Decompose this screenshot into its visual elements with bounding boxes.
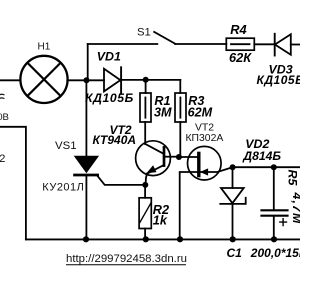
node rail C1 [271,236,277,242]
node emitter junction [142,182,148,188]
wire C1 riser [273,167,275,209]
resistor R2 [139,198,151,229]
capacitor C1 [262,209,288,211]
resistor R4 [226,38,254,50]
svg-text:62М: 62М [188,105,213,119]
node R1 junction [143,77,149,83]
svg-text:R4: R4 [230,22,246,37]
svg-text:VS1: VS1 [55,140,77,152]
node gate junction [176,154,182,160]
svg-text:0В: 0В [0,112,9,123]
wire VS1 anode riser [85,80,87,156]
wire riser to R3 [179,80,181,93]
wire VS1 gate to emitter node [98,176,145,185]
transistor VT2 (KP302A FET) [188,146,222,180]
node drain junction [230,164,236,170]
svg-text:КУ201Л: КУ201Л [42,182,84,194]
wire VD3 to right edge [291,44,300,46]
svg-text:200,0*15В: 200,0*15В [250,246,300,260]
resistor R3 [175,93,186,122]
svg-text:КТ940А: КТ940А [93,133,137,147]
svg-text:С1: С1 [227,246,243,260]
wire VD2 riser [232,167,234,188]
wire gate node to FET gate [182,156,198,158]
svg-text:КД105Б: КД105Б [257,73,301,87]
wire VT1 emitter down [146,173,148,185]
svg-text:Д814Б: Д814Б [242,149,281,163]
svg-text:R5: R5 [286,170,300,187]
node lamp-VS1 junction [84,77,90,83]
wire R2 to rail [144,229,146,240]
svg-text:1k: 1k [153,214,168,228]
lamp H1 [20,56,67,103]
wire VD2 to rail [232,204,234,239]
transistor VT1 (KT940A) [136,141,171,176]
wire 220V line to lamp [0,79,21,81]
wire VS1 cathode to rail [85,176,87,239]
svg-text:http://299792458.3dn.ru: http://299792458.3dn.ru [66,253,187,265]
svg-text:2: 2 [0,153,5,165]
svg-text:VD1: VD1 [97,49,121,63]
zener diode VD2 [221,188,244,203]
svg-text:Н1: Н1 [38,41,51,52]
svg-text:4,7М: 4,7М [290,192,300,225]
wire R3 to gate node [179,122,181,155]
wire C1 to rail [273,217,275,240]
wire R4 to VD3 [254,43,274,45]
wire FET drain lead [201,167,233,172]
node rail FET source [177,236,183,242]
wire riser from lamp node to top rail [87,44,89,80]
label AC tilde [0,94,4,99]
svg-text:62К: 62К [229,50,252,65]
node C1 junction top [271,164,277,170]
wire url underline [66,264,186,266]
svg-text:S1: S1 [137,27,151,39]
wire bottom rail [26,238,300,240]
diode VD1 [104,69,120,92]
wire lamp to VD1 [67,79,104,81]
thyristor VS1 [75,156,98,172]
wire R1 to VT1 collector [144,122,146,144]
wire FET source lead down to rail [180,172,197,239]
node rail VD2 [230,236,236,242]
switch S1 [154,32,175,44]
wire emitter node to R2 [144,185,146,198]
svg-text:КД105Б: КД105Б [85,91,134,105]
wire riser to R1 [145,80,147,93]
diode VD3 [274,34,276,56]
wire top rail left segment [88,43,158,45]
wire VD1 to R3 riser [122,79,180,81]
resistor R1 [140,93,151,122]
svg-text:КП302А: КП302А [186,133,224,144]
wire 220V return line [0,127,26,240]
wire drain node to right edge [233,166,301,168]
wire VT1 base lead [165,156,176,158]
svg-text:3М: 3М [154,105,172,119]
wire top rail S1 to R4 [175,43,226,45]
node rail VS1 [83,236,89,242]
node rail R2 [143,236,149,242]
